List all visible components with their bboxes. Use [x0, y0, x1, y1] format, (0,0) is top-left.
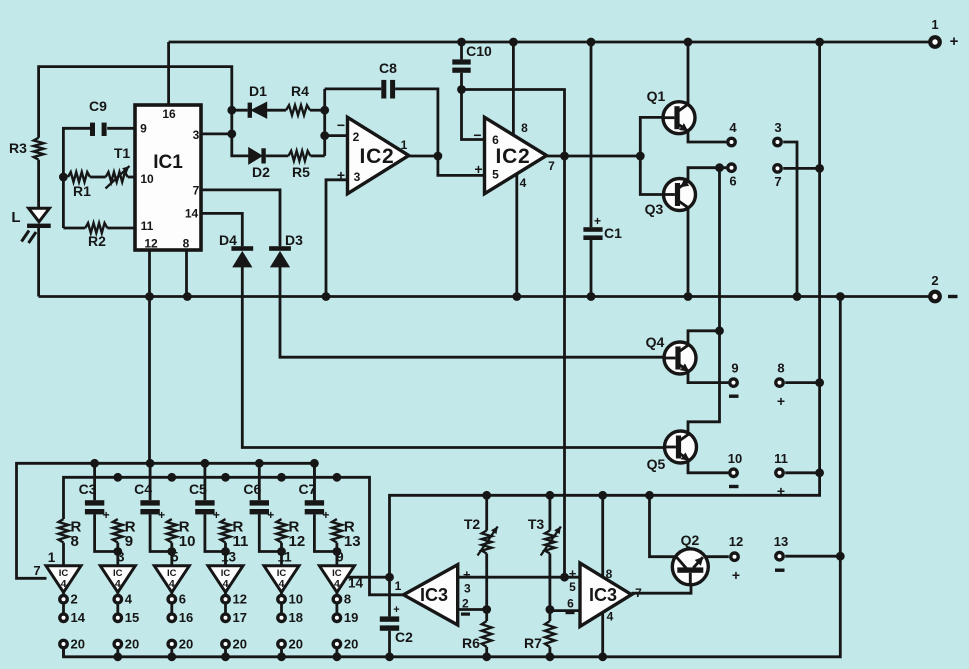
svg-text:IC1: IC1 — [153, 152, 183, 173]
wire IC1 pin 14 to D4 — [201, 213, 242, 246]
node C to R9 junction — [113, 547, 122, 556]
node C rail C3 — [90, 459, 99, 468]
node riser terminal 7 — [815, 164, 824, 173]
wire terminal 8 to riser — [785, 381, 819, 384]
svg-text:4: 4 — [279, 578, 285, 590]
wire Q3 emitter to terminal 6 — [688, 168, 726, 182]
capacitor C10 top plate — [452, 59, 470, 64]
svg-text:D4: D4 — [219, 232, 237, 248]
svg-text:16: 16 — [179, 610, 193, 625]
wire C1 bottom lead — [590, 240, 593, 297]
op-amp IC4 unit 1 — [46, 566, 81, 593]
svg-text:10: 10 — [140, 172, 154, 186]
terminal 20 col 1 — [60, 640, 67, 647]
wire IC1 pin 12 to rail — [148, 250, 151, 463]
wire R10 to IC4 input — [170, 543, 173, 566]
capacitor C1 top plate — [583, 227, 602, 232]
wire C3 top lead — [93, 463, 96, 500]
node terminal 6 tap — [715, 163, 724, 172]
transistor Q3 — [664, 179, 696, 211]
capacitor C3 bottom plate — [85, 509, 104, 514]
wire terminal 20 col 5 to bus — [280, 648, 283, 657]
svg-text:C5: C5 — [189, 481, 207, 497]
wire IC1 pin 8 to -bus — [185, 250, 188, 297]
svg-text:11: 11 — [774, 451, 788, 466]
svg-text:T2: T2 — [464, 516, 481, 532]
terminal 18 — [278, 614, 285, 621]
wire loop to R2 — [63, 227, 85, 230]
terminal 20 col 5 — [278, 640, 285, 647]
resistor R12 — [277, 519, 287, 543]
trimmer T1 — [106, 172, 128, 182]
wire C5 bottom to R11 — [205, 514, 226, 551]
svg-text:8: 8 — [71, 533, 79, 550]
wire IC2a out to IC2b pin5 — [438, 156, 485, 175]
wire R13 to IC4 input — [335, 543, 338, 566]
svg-text:+: + — [474, 161, 482, 177]
svg-text:R7: R7 — [524, 635, 542, 651]
trimmer T3 arrow — [541, 527, 561, 556]
node pin14 C2 — [385, 573, 394, 582]
node IC2 pin2 — [320, 131, 329, 140]
wire terminal 12 to 17 — [224, 603, 227, 614]
capacitor C8 right plate — [390, 80, 395, 99]
svg-text:C3: C3 — [79, 481, 97, 497]
capacitor C3 top plate — [85, 500, 104, 505]
svg-text:3: 3 — [464, 582, 471, 596]
wire C10 top lead — [460, 42, 463, 59]
terminal 10 — [730, 469, 737, 476]
resistor R6 — [482, 621, 492, 647]
node C10 bottom — [457, 85, 466, 94]
svg-text:20: 20 — [344, 636, 358, 651]
terminal 6 — [728, 164, 735, 171]
node bottom bus col 2 — [113, 652, 122, 661]
wire IC3a pin 2 — [458, 608, 487, 611]
svg-text:C8: C8 — [379, 60, 397, 76]
svg-text:R4: R4 — [291, 83, 309, 99]
svg-text:8: 8 — [521, 121, 528, 135]
wire T2 to R6 — [485, 554, 488, 622]
svg-text:Q5: Q5 — [647, 456, 666, 472]
svg-text:20: 20 — [289, 636, 303, 651]
svg-text:11: 11 — [233, 533, 249, 550]
wire R4 to node — [310, 109, 325, 112]
svg-text:6: 6 — [179, 592, 186, 607]
svg-text:+: + — [777, 393, 785, 409]
svg-text:Q3: Q3 — [645, 201, 664, 217]
wire IC3b pin 8 — [601, 495, 604, 577]
minus sign at terminal 9 — [729, 395, 739, 398]
svg-text:5: 5 — [569, 580, 576, 594]
svg-text:7: 7 — [33, 563, 40, 578]
svg-text:10: 10 — [179, 533, 196, 550]
node bottom bus C2 — [385, 652, 394, 661]
terminal 3 — [774, 138, 781, 145]
op-amp IC4 unit 2 — [100, 566, 135, 593]
wire plus inputs IC3 — [458, 576, 580, 579]
node +bus C10 — [457, 38, 466, 47]
wire C8 left — [325, 88, 382, 91]
svg-text:D3: D3 — [285, 232, 303, 248]
svg-text:D1: D1 — [249, 83, 267, 99]
IC3b minus bar — [566, 611, 575, 614]
terminal 4 — [728, 138, 735, 145]
svg-text:+: + — [732, 567, 740, 583]
wire terminal 20 col 4 to bus — [224, 648, 227, 657]
wire IC2a output — [409, 155, 438, 158]
svg-text:4: 4 — [61, 578, 67, 590]
node bottom bus col 3 — [167, 652, 176, 661]
node feedback to plus inputs — [560, 573, 569, 582]
node R1 left junction — [59, 173, 68, 182]
svg-text:C4: C4 — [134, 481, 152, 497]
op-amp IC3 (first) — [404, 565, 458, 625]
svg-text:IC2: IC2 — [359, 145, 394, 168]
wire Q5 emitter to terminal 10 — [688, 460, 728, 473]
wire Q4 emitter to terminal 9 — [688, 371, 728, 382]
svg-text:C2: C2 — [395, 629, 413, 645]
trimmer T2 — [482, 531, 492, 554]
svg-text:8: 8 — [183, 237, 190, 251]
minus sign at terminal 10 — [729, 485, 739, 488]
svg-text:R2: R2 — [88, 233, 106, 249]
node -bus bottom riser — [836, 292, 845, 301]
wire IC3b pin 6 — [550, 609, 580, 612]
svg-text:4: 4 — [729, 120, 737, 135]
transistor Q2 — [672, 549, 708, 585]
wire terminal 6 to 16 — [170, 603, 173, 614]
resistor R8 — [59, 519, 69, 543]
node C to R10 junction — [167, 547, 176, 556]
node C to R11 junction — [221, 547, 230, 556]
svg-text:Q4: Q4 — [646, 334, 665, 350]
resistor R13 — [332, 519, 342, 543]
terminal 14 — [60, 614, 67, 621]
terminal 12 — [731, 553, 738, 560]
wire R2 to IC1 pin 11 — [107, 227, 135, 230]
wire IC2b pin 8 to +V — [512, 42, 515, 135]
wire terminal 7 to riser — [783, 167, 819, 170]
svg-text:12: 12 — [233, 592, 247, 607]
svg-text:−: − — [337, 117, 345, 133]
svg-text:9: 9 — [731, 361, 738, 376]
wire D4 to Q5 base — [242, 267, 664, 448]
svg-text:6: 6 — [567, 597, 574, 611]
svg-text:9: 9 — [125, 533, 133, 550]
diode D2 triangle — [249, 148, 261, 163]
wire D3 to Q4 base — [280, 267, 664, 358]
wire diode left column — [232, 110, 249, 156]
svg-text:+: + — [393, 604, 399, 616]
svg-text:11: 11 — [141, 219, 154, 233]
node bottom bus R6 — [482, 652, 491, 661]
svg-text:1: 1 — [48, 550, 56, 565]
svg-text:3: 3 — [193, 128, 200, 142]
svg-text:4: 4 — [223, 578, 229, 590]
svg-text:5: 5 — [492, 168, 499, 182]
wire terminal 13 to bus riser — [785, 555, 840, 558]
svg-text:+: + — [322, 508, 329, 522]
node C rail C5 — [201, 459, 210, 468]
svg-text:+: + — [103, 508, 110, 522]
svg-text:14: 14 — [71, 610, 86, 625]
capacitor C5 bottom plate — [195, 509, 214, 514]
wire -V bus — [39, 295, 930, 298]
resistor R11 — [221, 519, 231, 543]
node R rail R12 — [277, 473, 286, 482]
node -bus IC1 pin12 — [145, 292, 154, 301]
wire R7 to bottom bus — [549, 647, 552, 657]
wire C6 bottom to R12 — [259, 514, 281, 551]
terminal 20 col 2 — [114, 640, 121, 647]
svg-text:L: L — [11, 209, 20, 226]
terminal 2 — [60, 596, 67, 603]
wire IC1 pin 7 to D3 — [201, 190, 280, 246]
wire IC1 pin 9 to C9 — [107, 127, 135, 130]
wire Q1 collector to +V — [687, 42, 690, 104]
capacitor C5 top plate — [195, 500, 214, 505]
svg-text:IC2: IC2 — [495, 145, 530, 168]
wire terminal 8 to 19 — [335, 603, 338, 614]
wire C7 top lead — [313, 463, 316, 500]
capacitor C9 left plate — [90, 123, 95, 136]
svg-text:R6: R6 — [462, 635, 480, 651]
svg-text:13: 13 — [344, 533, 361, 550]
node bottom bus terminal 13 tap — [836, 552, 845, 561]
node D1-R4 left — [227, 106, 236, 115]
svg-text:4: 4 — [169, 578, 175, 590]
wire T1 to IC1 pin 10 — [128, 176, 135, 179]
wire IC4 unit 3 output — [170, 592, 173, 595]
node -bus terminal 3 — [793, 292, 802, 301]
diode D4 cathode bar — [231, 246, 253, 251]
wire R9 to IC4 input — [116, 543, 119, 566]
LED L light slashes — [22, 231, 37, 244]
svg-text:C10: C10 — [466, 43, 492, 59]
wire C4 bottom to R10 — [150, 514, 172, 551]
svg-text:8: 8 — [344, 592, 351, 607]
svg-text:+: + — [158, 508, 165, 522]
svg-text:20: 20 — [233, 636, 247, 651]
node IC3b pin6 T3 R7 — [546, 605, 555, 614]
terminal 13 — [776, 553, 783, 560]
wire terminal 10 to 18 — [280, 603, 283, 614]
node C rail C7 — [310, 459, 319, 468]
terminal 12 — [222, 596, 229, 603]
minus sign at terminal 13 — [775, 569, 785, 572]
svg-text:20: 20 — [125, 636, 139, 651]
op-amp IC4 unit 4 — [208, 566, 243, 593]
svg-text:IC3: IC3 — [420, 585, 448, 605]
resistor R9 — [113, 519, 123, 543]
trimmer T1 arrow — [106, 166, 130, 189]
LED L triangle — [29, 208, 50, 222]
svg-text:+: + — [594, 214, 601, 228]
wire terminal6 node to Q4/Q5 collectors — [688, 168, 720, 432]
wire IC4 pin 14 to C2 node — [347, 576, 390, 579]
terminal 9 — [730, 379, 737, 386]
wire terminal 3 to -bus — [783, 142, 797, 297]
svg-text:Q2: Q2 — [681, 532, 700, 548]
wire diode right column — [323, 89, 326, 156]
wire R6 to bottom bus — [485, 647, 488, 657]
svg-text:+: + — [267, 508, 274, 522]
wire IC4 unit 2 output — [116, 592, 119, 595]
wire C7 bottom to R13 — [314, 514, 337, 551]
resistor R2 — [85, 223, 107, 233]
diode D3 triangle — [271, 252, 288, 266]
svg-text:T1: T1 — [114, 145, 131, 161]
svg-text:3: 3 — [354, 170, 361, 184]
wire IC2b output — [547, 155, 641, 158]
wire R3 to LED — [37, 160, 40, 209]
node -bus IC2a pin3 — [322, 292, 331, 301]
node C rail C4 — [146, 459, 155, 468]
wire C5 top lead — [203, 463, 206, 500]
node C8 feedback — [434, 152, 443, 161]
capacitor C2 bottom plate — [380, 625, 399, 630]
wire feedback rail to IC4 pin 7 — [17, 463, 315, 578]
wire R11 to IC4 input — [224, 543, 227, 566]
wire C1 top lead — [590, 42, 593, 227]
svg-text:13: 13 — [774, 534, 788, 549]
svg-text:R5: R5 — [292, 164, 310, 180]
node IC3 bus IC3b pin8 — [598, 491, 607, 500]
op-amp IC3 (second) — [580, 563, 632, 627]
svg-text:20: 20 — [179, 636, 193, 651]
svg-text:19: 19 — [344, 610, 358, 625]
resistor R4 — [286, 105, 310, 115]
node R rail R13 — [333, 473, 342, 482]
svg-text:7: 7 — [774, 174, 781, 189]
wire IC3b output to Q2 — [632, 585, 692, 593]
node -bus IC1 pin8 — [183, 292, 192, 301]
node R rail R11 — [221, 473, 230, 482]
node R rail R10 — [167, 473, 176, 482]
wire IC4 unit 1 output — [62, 592, 65, 595]
capacitor C10 bottom plate — [452, 68, 470, 73]
op-amp IC2 (first) — [348, 117, 409, 193]
node C to R13 junction — [333, 547, 342, 556]
svg-text:4: 4 — [115, 578, 121, 590]
wire IC4 unit 5 output — [280, 592, 283, 595]
svg-text:12: 12 — [289, 533, 306, 550]
capacitor C4 top plate — [140, 500, 159, 505]
terminal 2 (-) — [930, 292, 940, 302]
wire node to IC2 pin 2 — [325, 134, 348, 137]
wire D1 to R4 — [266, 109, 286, 112]
terminal 16 — [168, 614, 175, 621]
wire C2 top lead — [388, 577, 391, 616]
wire +V bus — [169, 41, 930, 44]
capacitor C6 top plate — [250, 500, 269, 505]
node IC1 pin3 — [227, 130, 236, 139]
wire R8 to IC4 input — [62, 543, 65, 566]
node +bus C1 — [587, 38, 596, 47]
node Q1 Q3 base — [636, 152, 645, 161]
wire C4 top lead — [149, 463, 152, 500]
wire T3 top lead — [549, 495, 552, 530]
wire R1 to T1 — [90, 176, 106, 179]
wire IC2a pin 3 to -bus — [326, 180, 348, 297]
terminal 20 col 3 — [168, 640, 175, 647]
svg-text:2: 2 — [931, 273, 938, 288]
node riser at +V — [815, 38, 824, 47]
terminal 8 — [776, 379, 783, 386]
svg-text:IC3: IC3 — [589, 585, 617, 605]
terminal 11 — [776, 469, 783, 476]
wire T2 top lead — [485, 495, 488, 530]
wire Q4 collector branch — [688, 331, 720, 343]
wire terminal 20 col 2 to bus — [116, 648, 119, 657]
svg-text:12: 12 — [144, 237, 158, 251]
svg-text:+: + — [213, 508, 220, 522]
op-amp IC2 (second) — [485, 117, 547, 193]
resistor R5 — [288, 151, 310, 161]
diode D4 triangle — [234, 252, 251, 266]
svg-text:D2: D2 — [252, 164, 270, 180]
resistor R3 — [34, 138, 44, 160]
svg-text:12: 12 — [729, 534, 743, 549]
op-amp IC4 unit 5 — [264, 566, 299, 593]
terminal 1 (+) — [930, 37, 940, 47]
svg-text:8: 8 — [606, 567, 613, 581]
IC3a minus bar — [461, 613, 470, 616]
wire R rail from IC3 output — [64, 477, 404, 595]
node bottom bus col 5 — [277, 652, 286, 661]
svg-text:10: 10 — [728, 451, 742, 466]
wire IC3b pin 4 — [601, 612, 604, 656]
node Q4 collector — [715, 326, 724, 335]
wire IC4 unit 6 output — [335, 592, 338, 595]
wire T3 to R7 — [549, 554, 552, 622]
IC1 box — [135, 105, 201, 250]
wire C2 bottom lead — [388, 631, 391, 657]
wire feedback node right — [462, 90, 565, 157]
diode D1 triangle — [252, 103, 266, 118]
resistor R7 — [545, 621, 555, 647]
svg-text:+: + — [950, 33, 959, 50]
wire IC1 pin 16 to +V — [167, 42, 170, 105]
svg-text:7: 7 — [548, 159, 555, 173]
svg-text:16: 16 — [162, 107, 176, 121]
LED L cathode bar — [27, 224, 51, 228]
node +bus Q1 collector — [684, 38, 693, 47]
wire Q1 emitter to terminal 4 — [688, 131, 726, 142]
wire C6 top lead — [258, 463, 261, 500]
svg-text:R1: R1 — [73, 183, 91, 199]
svg-text:18: 18 — [289, 610, 303, 625]
capacitor C4 bottom plate — [140, 509, 159, 514]
node riser terminal 8 — [815, 378, 824, 387]
terminal 17 — [222, 614, 229, 621]
svg-text:Q1: Q1 — [647, 88, 666, 104]
wire IC2b pin 4 to -bus — [515, 174, 518, 297]
wire R5 to node — [310, 154, 324, 157]
terminal 15 — [114, 614, 121, 621]
svg-text:+: + — [777, 483, 785, 499]
wire C3 bottom to R9 — [95, 514, 118, 551]
trimmer T2 arrow — [478, 527, 498, 556]
wire D1 anode lead — [232, 109, 248, 112]
wire bottom bus — [64, 297, 841, 657]
svg-text:−: − — [473, 127, 481, 143]
capacitor C6 bottom plate — [250, 509, 269, 514]
svg-text:+: + — [569, 566, 577, 581]
svg-text:C7: C7 — [298, 481, 316, 497]
wire Q3 base — [640, 156, 664, 195]
